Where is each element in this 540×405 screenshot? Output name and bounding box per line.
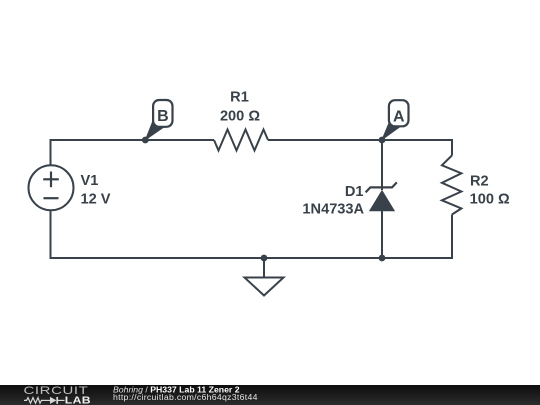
resistor R1 [214, 130, 268, 151]
wire V1 bottom lead [50, 210, 52, 258]
svg-text:B: B [157, 108, 169, 125]
svg-text:http://circuitlab.com/c6h64qz3: http://circuitlab.com/c6h64qz3t6t44 [113, 392, 258, 402]
junction dot ground [261, 255, 268, 262]
wire D1 bottom lead [381, 211, 383, 258]
wire V1 top lead [50, 140, 52, 166]
node B [153, 100, 172, 127]
CircuitLab logo diode [44, 397, 65, 404]
wire bottom rail [50, 257, 453, 259]
svg-text:A: A [393, 108, 405, 125]
voltage source V1 [29, 165, 74, 210]
svg-text:R1: R1 [230, 90, 249, 106]
footer bar [0, 385, 540, 405]
junction dot node B [142, 137, 149, 144]
svg-text:100 Ω: 100 Ω [470, 192, 510, 208]
junction dot node A [379, 137, 386, 144]
node A callout tail [381, 121, 400, 141]
node A [389, 100, 409, 126]
svg-text:LAB: LAB [65, 395, 91, 405]
wire top rail right [268, 139, 452, 141]
wire D1 top lead [381, 140, 383, 190]
svg-text:1N4733A: 1N4733A [302, 202, 364, 218]
svg-text:12 V: 12 V [81, 192, 111, 208]
svg-text:V1: V1 [81, 173, 99, 189]
wire top rail left [50, 139, 215, 141]
zener diode D1 [366, 182, 397, 211]
CircuitLab logo resistor zigzag [24, 398, 44, 404]
wire R2 top lead [451, 139, 453, 155]
resistor R2 [442, 155, 462, 214]
wire R2 bottom lead [451, 215, 453, 260]
svg-text:R2: R2 [470, 173, 489, 189]
ground [245, 258, 284, 296]
node B callout tail [145, 121, 165, 142]
svg-text:200 Ω: 200 Ω [220, 109, 260, 125]
junction dot D1 bottom [379, 255, 386, 262]
svg-text:D1: D1 [345, 184, 364, 200]
